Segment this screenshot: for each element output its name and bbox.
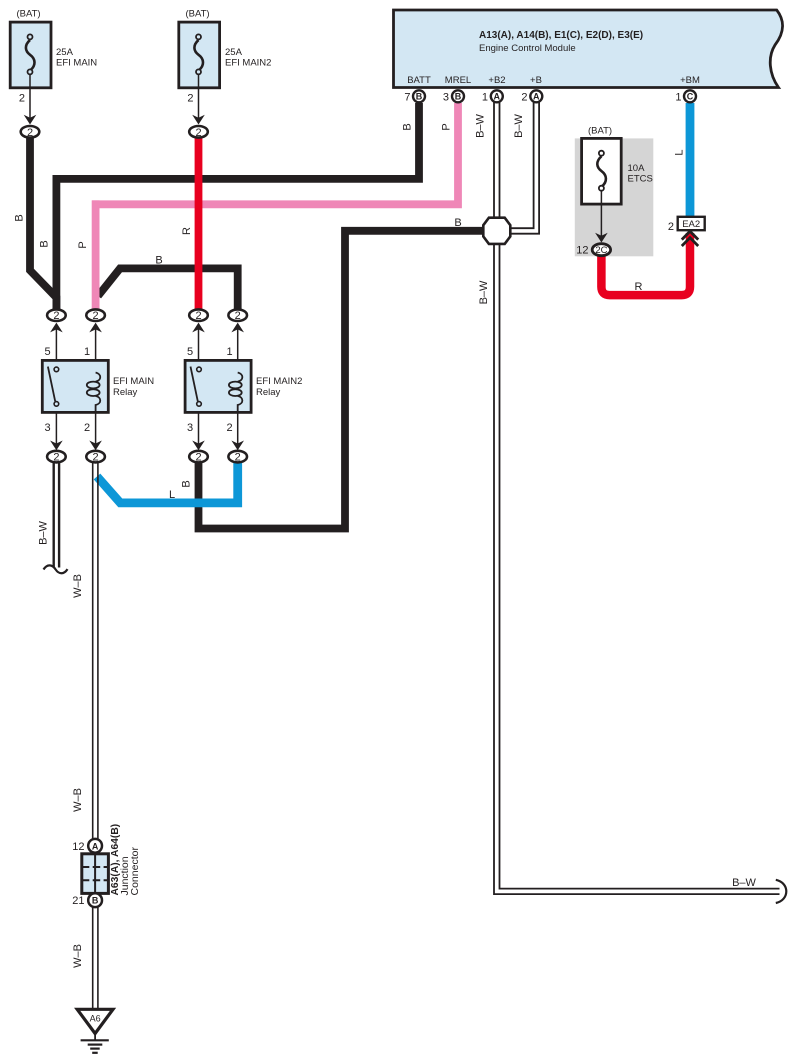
ECM pin 1 (A) +B2	[482, 90, 503, 103]
connector oval 2C	[592, 244, 610, 256]
svg-text:B: B	[39, 240, 51, 247]
junction connector A63(A), A64(B)	[72, 824, 141, 907]
svg-text:A: A	[533, 92, 540, 102]
svg-text:Relay: Relay	[256, 387, 281, 398]
fuse ETCS pin 12 lead	[600, 190, 602, 240]
wire MREL P (ECM pin 3B to EFI MAIN relay pin 1 connector)	[92, 103, 458, 204]
svg-text:EFI MAIN: EFI MAIN	[113, 376, 154, 387]
wire B-W double from relay1 pin3 with break squiggle	[44, 463, 68, 573]
svg-text:5: 5	[187, 346, 193, 358]
svg-text:EFI MAIN2: EFI MAIN2	[256, 376, 302, 387]
fuse EFI MAIN pin 2 lead	[29, 74, 31, 122]
svg-text:2: 2	[187, 93, 193, 105]
wire +B2 B-W double line down to octagon	[494, 103, 500, 220]
svg-text:12: 12	[72, 841, 84, 853]
relay1 pin2 lead down	[95, 412, 97, 448]
svg-text:2: 2	[668, 221, 674, 233]
svg-text:P: P	[441, 123, 453, 130]
svg-text:B: B	[92, 896, 99, 906]
svg-text:2: 2	[235, 452, 241, 464]
svg-text:12: 12	[576, 245, 588, 257]
svg-text:+BM: +BM	[680, 75, 700, 86]
svg-text:EA2: EA2	[682, 219, 700, 230]
svg-text:7: 7	[404, 91, 410, 103]
ECM box A13(A), A14(B), E1(C), E2(D), E3(E)	[394, 10, 783, 88]
fuse EFI MAIN	[10, 9, 97, 139]
ground point A6	[77, 1009, 113, 1053]
svg-text:R: R	[181, 227, 193, 235]
relay EFI MAIN	[42, 346, 154, 450]
connector oval 2 below relay1 pin3	[47, 451, 66, 464]
relay1 switch	[48, 367, 55, 402]
svg-text:2: 2	[195, 127, 201, 139]
connector oval 2 below relay2 pin3	[189, 451, 208, 464]
fuse EFI MAIN2 pin 2 lead	[198, 74, 200, 122]
svg-text:+B2: +B2	[488, 75, 505, 86]
ECM pin 1 (C) +BM	[675, 90, 696, 103]
svg-text:(BAT): (BAT)	[186, 9, 210, 20]
fuse ETCS 10A	[576, 126, 653, 257]
svg-text:B: B	[455, 92, 462, 102]
svg-text:(BAT): (BAT)	[588, 126, 612, 137]
svg-text:EFI MAIN: EFI MAIN	[56, 58, 97, 69]
wire fuse EFI MAIN to relay (B)	[30, 134, 56, 309]
svg-text:+B: +B	[530, 75, 542, 86]
fuse EFI MAIN2	[179, 9, 272, 139]
svg-text:B–W: B–W	[475, 113, 487, 137]
svg-text:25A: 25A	[225, 47, 243, 58]
svg-text:R: R	[635, 281, 643, 293]
connector oval 2 below fuse EFI MAIN	[21, 126, 40, 138]
svg-text:2: 2	[93, 310, 99, 322]
wire R (red) ETCS fuse 2C to EA2	[601, 233, 690, 295]
ECM pin 7 (B) BATT	[404, 90, 425, 103]
relay2 coil	[238, 373, 243, 382]
svg-text:2: 2	[93, 452, 99, 464]
svg-text:MREL: MREL	[445, 75, 471, 86]
svg-text:1: 1	[482, 91, 488, 103]
connector oval 2 above relay1 pin1	[86, 309, 105, 373]
relay EFI MAIN2	[185, 346, 302, 450]
svg-text:2: 2	[195, 310, 201, 322]
wire fuse EFI MAIN2 to relay2 pin 5 (R)	[195, 134, 203, 309]
wire B-W double from octagon to bottom right	[494, 244, 786, 903]
wire +B B-W double line down and left into octagon	[510, 103, 539, 234]
svg-text:2: 2	[27, 127, 33, 139]
svg-text:B: B	[416, 92, 423, 102]
svg-text:2: 2	[19, 93, 25, 105]
wire W-B double from relay1 pin2 to junction connector	[93, 463, 98, 839]
svg-text:B–W: B–W	[732, 877, 756, 889]
svg-text:Engine Control Module: Engine Control Module	[479, 43, 576, 54]
svg-text:2: 2	[195, 452, 201, 464]
svg-text:1: 1	[84, 346, 90, 358]
wire relay2 pin3 B to octagon junction	[199, 231, 484, 529]
svg-text:3: 3	[44, 422, 50, 434]
svg-text:P: P	[77, 241, 89, 248]
svg-text:Relay: Relay	[113, 387, 138, 398]
svg-text:B–W: B–W	[478, 280, 490, 304]
svg-text:A: A	[92, 841, 99, 851]
svg-text:1: 1	[675, 91, 681, 103]
svg-text:10A: 10A	[628, 163, 646, 174]
connector oval 2 above relay2 pin1	[228, 309, 247, 373]
ECM pin 2 (A) +B	[521, 90, 542, 103]
relay2 switch	[191, 367, 198, 402]
svg-text:B: B	[181, 480, 193, 487]
svg-text:2: 2	[53, 452, 59, 464]
svg-text:A: A	[494, 92, 501, 102]
relay2 pin3 lead down	[198, 412, 200, 448]
wire W-B double from junction connector to ground	[93, 907, 98, 1009]
svg-text:3: 3	[187, 422, 193, 434]
svg-text:2: 2	[53, 310, 59, 322]
svg-text:L: L	[674, 149, 686, 155]
svg-text:B: B	[155, 255, 162, 267]
svg-text:C: C	[687, 92, 694, 102]
svg-text:21: 21	[72, 895, 84, 907]
svg-text:EFI MAIN2: EFI MAIN2	[225, 58, 271, 69]
svg-text:Connector: Connector	[129, 847, 141, 896]
svg-text:ETCS: ETCS	[628, 174, 653, 185]
svg-text:A13(A), A14(B), E1(C), E2(D),: A13(A), A14(B), E1(C), E2(D), E3(E)	[479, 30, 643, 41]
svg-text:(BAT): (BAT)	[17, 9, 41, 20]
svg-text:B: B	[454, 217, 461, 229]
svg-text:2: 2	[235, 310, 241, 322]
svg-text:B–W: B–W	[38, 520, 50, 544]
connector oval 2 below relay2 pin2	[228, 451, 247, 464]
wire BATT B (ECM pin 7B to EFI MAIN relay pin 5 connector)	[60, 103, 419, 179]
wire L (blue) relay1 pin2 branch to relay2 pin2	[97, 461, 238, 503]
relay2 pin2 lead down	[237, 412, 239, 448]
svg-text:W–B: W–B	[72, 788, 84, 812]
connector EA2	[668, 217, 705, 246]
svg-text:L: L	[169, 489, 175, 501]
svg-text:B–W: B–W	[513, 113, 525, 137]
svg-text:2C: 2C	[595, 245, 607, 256]
svg-text:2: 2	[84, 422, 90, 434]
svg-text:B: B	[14, 214, 26, 221]
svg-text:1: 1	[227, 346, 233, 358]
relay1 pin3 lead down	[55, 412, 57, 448]
octagon junction node	[483, 218, 510, 244]
svg-text:W–B: W–B	[72, 944, 84, 968]
relay1 coil	[96, 373, 101, 382]
svg-text:5: 5	[44, 346, 50, 358]
svg-text:BATT: BATT	[407, 75, 431, 86]
connector oval 2 above relay2 pin5	[189, 309, 208, 367]
connector oval 2 below fuse EFI MAIN2	[189, 126, 208, 138]
shield chevron into EA2	[682, 231, 698, 239]
wire B jumper relay1 pin1 to relay2 pin1	[98, 268, 238, 309]
svg-text:A6: A6	[90, 1014, 101, 1024]
svg-text:W–B: W–B	[72, 574, 84, 598]
svg-text:2: 2	[521, 91, 527, 103]
tear squiggle at right end	[776, 880, 787, 903]
ETCS gray panel	[575, 138, 654, 256]
ECM pin 3 (B) MREL	[443, 90, 464, 103]
svg-text:B: B	[402, 123, 414, 130]
connector oval 2 above relay1 pin5	[47, 309, 66, 367]
svg-text:2: 2	[227, 422, 233, 434]
connector oval 2 below relay1 pin2	[86, 451, 105, 464]
svg-text:25A: 25A	[56, 47, 74, 58]
svg-text:3: 3	[443, 91, 449, 103]
wire +BM L (blue) ECM pin 1C to EA2	[686, 103, 695, 217]
